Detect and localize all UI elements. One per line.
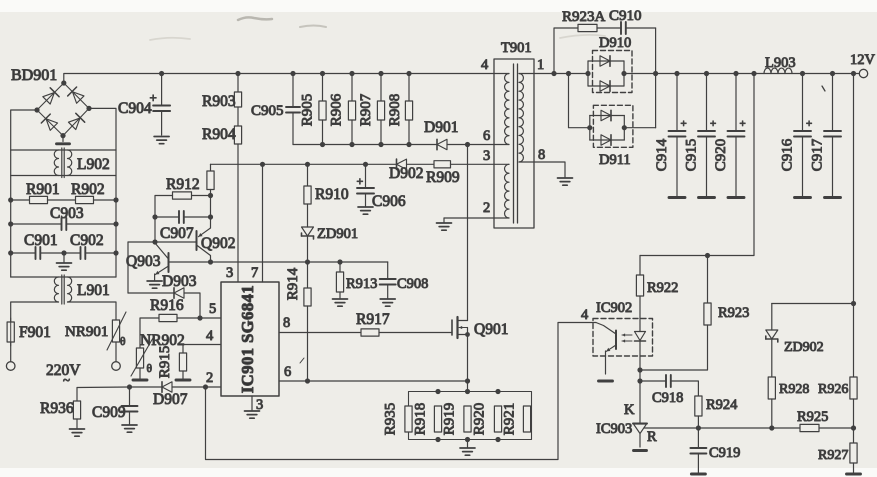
- transistor Q902: [197, 228, 211, 262]
- resistor R922: [636, 256, 643, 297]
- node: bridge AC left: [34, 107, 39, 112]
- capacitor C901: [11, 247, 64, 259]
- wire: D911 feed: [569, 74, 590, 128]
- label C916: [780, 138, 796, 171]
- svg-text:R907: R907: [358, 93, 374, 126]
- wire: IC901 pin 2: [206, 386, 222, 388]
- wire: D910 risers: [588, 61, 624, 86]
- node R910 top: [305, 162, 310, 167]
- resistor R911 vertical: [207, 164, 214, 195]
- label pin 8 of T901: [538, 147, 545, 163]
- label R of IC903: [647, 429, 657, 445]
- transistor Q901 MOSFET: [452, 317, 470, 338]
- wire: to R936: [77, 387, 130, 401]
- node C903 right: [113, 221, 118, 226]
- capacitor C907: [155, 211, 211, 223]
- node R906 bottom: [349, 142, 354, 147]
- svg-text:8: 8: [283, 315, 290, 331]
- label + of C920: [740, 118, 746, 130]
- label pin 4 of T901: [481, 57, 489, 73]
- resistor R902: [76, 196, 117, 203]
- svg-text:C909: C909: [92, 404, 126, 421]
- label R901: [26, 181, 60, 198]
- node C909 top: [127, 384, 132, 389]
- label R914: [285, 267, 301, 300]
- wire: secondary rail: [519, 73, 859, 75]
- wire: Q901 source: [467, 335, 469, 392]
- svg-text:8: 8: [538, 147, 545, 163]
- ground under C906: [358, 207, 373, 214]
- wire: Q902 base line: [128, 241, 197, 243]
- label D902: [389, 165, 423, 182]
- node pin5: [197, 315, 202, 320]
- label C903: [50, 205, 84, 222]
- svg-text:R936: R936: [40, 400, 74, 417]
- resistor R923A: [578, 24, 621, 31]
- svg-text:D903: D903: [162, 273, 197, 290]
- node ZD902 branch: [851, 301, 856, 306]
- svg-text:ZD901: ZD901: [317, 226, 358, 242]
- label R921: [502, 403, 518, 436]
- label C906: [372, 193, 406, 210]
- node Q902 base / Q903 collector: [152, 239, 157, 244]
- line filter lower line: [11, 276, 116, 278]
- resistor R935: [405, 406, 412, 432]
- resistor R907: [377, 74, 384, 145]
- svg-text:+: +: [806, 118, 812, 130]
- label L901: [77, 282, 110, 299]
- svg-text:R906: R906: [329, 93, 345, 126]
- node ZD901 bottom: [305, 259, 310, 264]
- svg-text:C901: C901: [24, 232, 58, 249]
- wire: IC901 pin 5: [200, 317, 221, 319]
- svg-text:ZD902: ZD902: [784, 340, 824, 355]
- wire: bridge AC left to line filter: [11, 110, 37, 150]
- bridge diode top-left arm: [42, 88, 59, 105]
- label C918: [652, 390, 683, 406]
- T901 aux winding pins 3-2: [505, 164, 509, 218]
- node C914 top: [674, 71, 679, 76]
- ground bar under NR902: [133, 379, 147, 382]
- svg-text:D907: D907: [153, 391, 188, 408]
- label T901: [501, 40, 532, 56]
- label R923: [718, 305, 749, 321]
- wire: bridge AC right to line filter: [89, 108, 116, 150]
- svg-text:D911: D911: [599, 152, 631, 168]
- label pin 6 of T901: [483, 128, 490, 144]
- resistor R915: [179, 353, 186, 379]
- node bank bottom: [435, 437, 440, 442]
- node C905 on rail: [290, 71, 295, 76]
- opto light arrows: [622, 333, 632, 342]
- node LED cathode / C918: [637, 378, 642, 383]
- wire: R904 to IC901 pin 3: [237, 144, 239, 282]
- label R916: [150, 297, 184, 314]
- node C916 top: [800, 71, 805, 76]
- svg-text:R905: R905: [300, 94, 316, 127]
- resistor R923: [640, 256, 711, 371]
- T901 core: [514, 64, 518, 223]
- svg-text:R917: R917: [356, 311, 390, 328]
- label R907: [358, 93, 374, 126]
- shunt reg IC903 TL431: [633, 424, 647, 448]
- label 220V: [46, 362, 81, 387]
- label C919: [709, 445, 740, 461]
- opto LED of IC902: [635, 296, 646, 370]
- svg-text:Q902: Q902: [201, 235, 235, 252]
- label pin 4: [206, 328, 214, 344]
- capacitor C918: [640, 375, 698, 396]
- node bank top: [435, 389, 440, 394]
- svg-text:R909: R909: [426, 169, 460, 186]
- label R926: [818, 382, 848, 397]
- label R908: [387, 94, 403, 127]
- node bank top: [495, 389, 500, 394]
- svg-text:6: 6: [483, 128, 490, 144]
- label R910: [315, 186, 349, 203]
- svg-text:R903: R903: [202, 93, 236, 110]
- ground bar under IC902: [599, 380, 613, 383]
- svg-text:R925: R925: [797, 409, 828, 425]
- node: drain tap on pin6 wire: [465, 142, 470, 147]
- ground under C908: [380, 299, 395, 306]
- diode D910 lower: [600, 81, 610, 91]
- label R917: [356, 311, 390, 328]
- inductor L901 right winding: [68, 277, 72, 302]
- node R924 bottom: [696, 425, 701, 430]
- resistor R908: [405, 74, 412, 145]
- opto IC902 dashed box: [593, 319, 653, 357]
- node R908 top: [406, 71, 411, 76]
- label IC901 SG6841: [238, 285, 257, 393]
- svg-text:C915: C915: [684, 139, 700, 172]
- svg-text:+: +: [357, 174, 364, 188]
- resistor R901: [11, 196, 76, 203]
- svg-text:4: 4: [481, 57, 489, 73]
- svg-text:R908: R908: [387, 94, 403, 127]
- svg-text:R922: R922: [647, 280, 678, 296]
- svg-text:4: 4: [206, 328, 214, 344]
- capacitor C910: [621, 22, 656, 34]
- diode D903: [174, 288, 184, 298]
- svg-text:R901: R901: [26, 181, 60, 198]
- resistor R914: [304, 262, 311, 381]
- wire: IC901 pin 8: [279, 332, 361, 334]
- node R901 left: [8, 197, 13, 202]
- wire: reference line: [644, 427, 854, 429]
- svg-text:2: 2: [483, 200, 490, 216]
- label R919: [442, 403, 458, 436]
- node R914 bottom on pin6 wire: [305, 378, 310, 383]
- node bank bottom: [465, 437, 470, 442]
- svg-text:IC903: IC903: [596, 421, 632, 437]
- node pin2 feedback tap: [203, 384, 208, 389]
- stray mark: [300, 86, 825, 363]
- wire: snubber bottom line: [293, 144, 437, 146]
- label R923A: [562, 9, 606, 25]
- resistor R912: [155, 192, 211, 217]
- wire: C907 left column down: [154, 217, 156, 242]
- node: bridge + output: [61, 80, 66, 85]
- wire: LED cathode to TL431: [639, 370, 641, 424]
- diode D911 lower: [601, 135, 611, 145]
- svg-text:R918: R918: [413, 403, 429, 436]
- bridge diode bottom-right arm: [68, 113, 85, 130]
- label + of C904: [150, 90, 157, 105]
- inductor L902 right winding: [68, 150, 72, 176]
- svg-text:12V: 12V: [850, 52, 876, 68]
- node R928 bottom: [769, 425, 774, 430]
- svg-text:R923A: R923A: [562, 9, 606, 25]
- capacitor C919: [690, 428, 706, 474]
- label R912: [166, 176, 200, 193]
- node C917 top: [830, 71, 835, 76]
- label C914: [654, 138, 670, 171]
- svg-text:C902: C902: [70, 232, 104, 249]
- node R906 top: [349, 71, 354, 76]
- label C901: [24, 232, 58, 249]
- label C920: [713, 139, 729, 172]
- capacitor C909: [122, 387, 138, 424]
- wire: D901 to T901 pin 6: [447, 144, 509, 146]
- svg-text:IC902: IC902: [596, 300, 632, 316]
- capacitor C908: [380, 262, 396, 298]
- resistor R917: [361, 329, 452, 336]
- svg-text:R919: R919: [442, 403, 458, 436]
- svg-text:R915: R915: [157, 346, 173, 379]
- node D911 left: [587, 125, 592, 130]
- L901 core: [62, 275, 64, 304]
- ground under C909: [122, 425, 137, 432]
- svg-text:R924: R924: [706, 397, 738, 413]
- D910 dashed box: [593, 51, 633, 93]
- svg-text:D910: D910: [599, 35, 631, 51]
- line filter mid line: [11, 175, 116, 177]
- label D907: [153, 391, 188, 408]
- node R905 top: [320, 71, 325, 76]
- node R923 top: [705, 253, 710, 258]
- node rail drop: [751, 71, 756, 76]
- label C909: [92, 404, 126, 421]
- wire: D911 risers: [590, 116, 625, 141]
- label C902: [70, 232, 104, 249]
- label R920: [472, 403, 488, 436]
- svg-text:R927: R927: [818, 448, 848, 463]
- label pin 4 of IC902: [581, 307, 589, 323]
- label C917: [810, 138, 826, 171]
- capacitor C920: [728, 74, 745, 198]
- capacitor C916: [794, 74, 811, 198]
- svg-text:R902: R902: [71, 181, 105, 198]
- svg-text:R926: R926: [818, 382, 848, 397]
- svg-text:C904: C904: [118, 100, 152, 117]
- svg-text:T901: T901: [501, 40, 532, 56]
- wire: T901 pin 2 lead: [444, 217, 509, 219]
- diode D907: [162, 382, 172, 392]
- svg-text:R912: R912: [166, 176, 200, 193]
- wire: D903 to pin5 node: [184, 293, 200, 318]
- wire: Vcc rail: [211, 163, 397, 165]
- wire: main HV rail from bridge to T901 pin 4: [64, 74, 509, 84]
- node snubber/rail junction: [653, 71, 658, 76]
- label pin 8: [283, 315, 290, 331]
- svg-text:R914: R914: [285, 267, 301, 300]
- ground under bank: [460, 440, 475, 456]
- thermistor NR901: [107, 312, 126, 361]
- wire: opto pin4 lead: [206, 323, 597, 460]
- svg-text:+: +: [740, 118, 746, 130]
- node R913 top: [337, 259, 342, 264]
- node D910 left: [585, 71, 590, 76]
- label + of C916: [806, 118, 812, 130]
- svg-text:R916: R916: [150, 297, 184, 314]
- svg-text:C918: C918: [652, 390, 683, 406]
- node LED cathode / R923: [637, 367, 642, 372]
- label R904: [202, 126, 236, 143]
- stray smudge 2: [300, 26, 326, 28]
- label pin 3 bottom: [256, 397, 263, 413]
- capacitor C904: [153, 74, 170, 136]
- node R908 bottom: [406, 142, 411, 147]
- node D911 branch left: [566, 71, 571, 76]
- label R927: [818, 448, 848, 463]
- label R928: [779, 382, 809, 397]
- wire: Q901 drain: [467, 145, 469, 321]
- resistor R910: [304, 164, 311, 204]
- inductor L903: [764, 68, 792, 73]
- wire: pin2 line to D907: [172, 386, 206, 388]
- capacitor C902: [64, 247, 116, 259]
- label R936: [40, 400, 74, 417]
- node C906 top: [363, 162, 368, 167]
- opto phototransistor of IC902: [596, 323, 616, 375]
- T901 primary winding pins 4-6: [505, 74, 509, 145]
- svg-text:6: 6: [284, 364, 291, 380]
- label theta of NR902: [147, 363, 153, 375]
- label R922: [647, 280, 678, 296]
- capacitor C903: [11, 218, 116, 230]
- svg-text:C908: C908: [397, 276, 428, 292]
- node R903 on rail: [235, 71, 240, 76]
- ground under R913: [333, 299, 348, 306]
- svg-text:F901: F901: [19, 324, 51, 341]
- node 12V rail tap: [851, 71, 856, 76]
- wire: filter left rail: [10, 150, 12, 277]
- label + of C914: [681, 118, 687, 130]
- svg-text:R935: R935: [383, 403, 399, 436]
- node C907 right: [208, 214, 213, 219]
- svg-text:R913: R913: [346, 276, 377, 292]
- resistor R927: [850, 428, 857, 473]
- label NR902: [140, 332, 185, 349]
- svg-text:K: K: [624, 402, 635, 418]
- ground at IC901 pin 3: [245, 411, 260, 418]
- ground under C904: [154, 137, 169, 144]
- svg-text:R921: R921: [502, 403, 518, 436]
- label Q903: [126, 253, 161, 270]
- svg-text:4: 4: [581, 307, 589, 323]
- svg-text:C920: C920: [713, 139, 729, 172]
- svg-text:L901: L901: [77, 282, 110, 299]
- node R907 top: [378, 71, 383, 76]
- label ZD902: [784, 340, 824, 355]
- ground under R936: [70, 429, 85, 436]
- label pin 6: [284, 364, 291, 380]
- svg-text:+: +: [710, 118, 716, 130]
- svg-text:3: 3: [226, 265, 233, 281]
- L902 core: [62, 148, 64, 178]
- svg-text:R: R: [647, 429, 657, 445]
- label IC902: [596, 300, 632, 316]
- wire: IC901 pin 3 bottom ground: [251, 396, 253, 410]
- resistor R924: [695, 396, 702, 428]
- svg-text:θ: θ: [147, 363, 153, 375]
- svg-text:NR901: NR901: [65, 324, 108, 340]
- label pin 3 of T901: [483, 148, 490, 164]
- wire: snubber branch: [554, 28, 578, 74]
- label F901: [19, 324, 51, 341]
- label R935: [383, 403, 399, 436]
- label R915: [157, 346, 173, 379]
- svg-text:C919: C919: [709, 445, 740, 461]
- wire: C907 right column down: [210, 196, 212, 229]
- svg-text:IC901 SG6841: IC901 SG6841: [238, 285, 257, 393]
- node pin7 on Vcc rail: [260, 162, 265, 167]
- ground bar under R915: [176, 379, 190, 382]
- resistor R921: [523, 406, 530, 432]
- node: C904 on HV rail: [159, 71, 164, 76]
- label BD901: [11, 67, 57, 84]
- line filter top line: [11, 149, 116, 151]
- op-amp U IC901 SG6841 box: [221, 282, 279, 396]
- node R907 bottom: [378, 142, 383, 147]
- wire: ZD902 branch line: [772, 303, 854, 305]
- resistor R926: [850, 377, 857, 428]
- fuse F901: [7, 318, 14, 361]
- svg-text:2: 2: [206, 370, 213, 386]
- svg-text:Q903: Q903: [126, 253, 161, 270]
- node D910 right: [621, 71, 626, 76]
- svg-text:R923: R923: [718, 305, 749, 321]
- svg-text:BD901: BD901: [11, 67, 57, 84]
- label R902: [71, 181, 105, 198]
- label Q901: [474, 321, 508, 338]
- ground bar under R927: [847, 473, 861, 476]
- label NR901: [65, 324, 108, 340]
- resistor R905: [319, 74, 326, 145]
- capacitor C905: [286, 74, 300, 145]
- label C915: [684, 139, 700, 172]
- node C901/C902 mid: [61, 250, 66, 255]
- svg-text:C903: C903: [50, 205, 84, 222]
- node C907 left: [152, 214, 157, 219]
- terminal: 12V output: [859, 69, 867, 77]
- node bank top: [465, 389, 470, 394]
- terminal: mains right: [112, 362, 121, 371]
- bridge diode top-right arm: [68, 87, 85, 104]
- capacitor C917: [824, 74, 841, 198]
- wire: bank frame: [409, 392, 532, 440]
- svg-text:R904: R904: [202, 126, 236, 143]
- svg-text:C905: C905: [251, 103, 284, 119]
- thermistor NR902: [131, 338, 153, 379]
- label 12V: [850, 52, 876, 68]
- svg-text:L903: L903: [765, 55, 796, 71]
- ground on pin 8 lead: [558, 178, 573, 185]
- node D911 right: [622, 125, 627, 130]
- node Q901 source / pin6: [465, 378, 470, 383]
- svg-text:C907: C907: [160, 225, 194, 242]
